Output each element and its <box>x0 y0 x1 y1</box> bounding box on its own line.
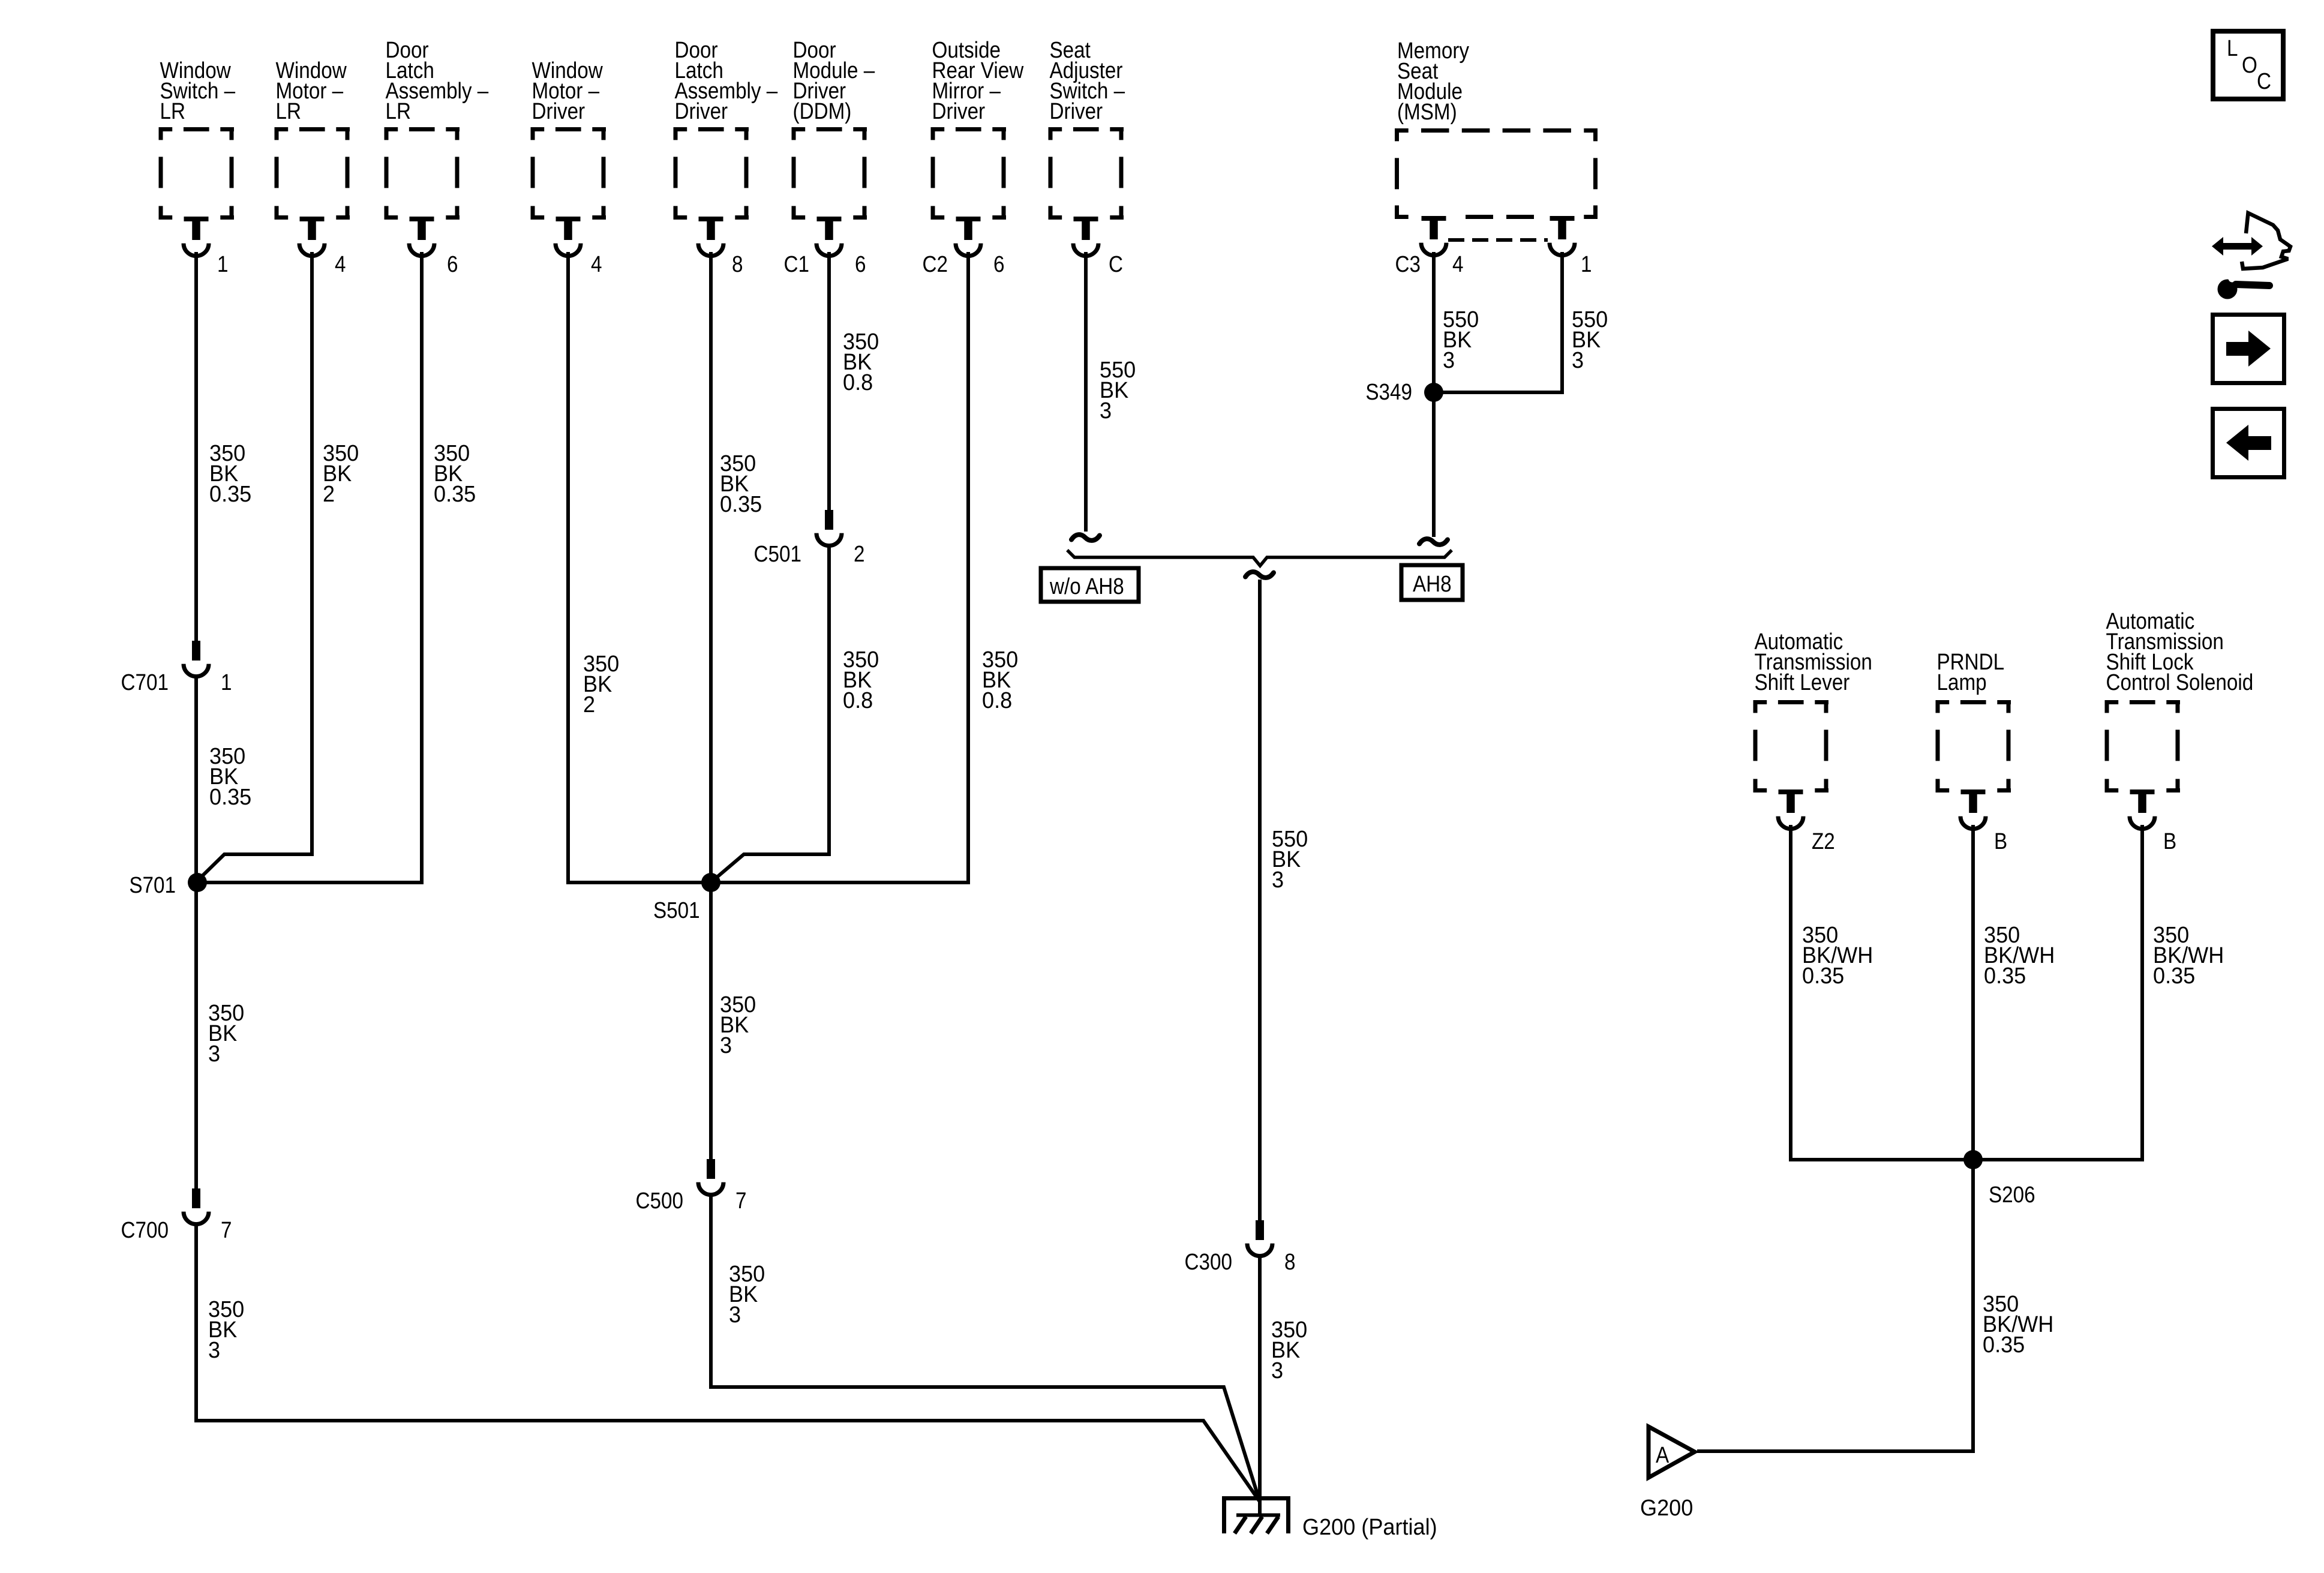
pin 4 connector of Window Motor - LR <box>299 217 325 256</box>
body-repair icon (double arrow, panel outline, wrench) <box>2212 213 2290 299</box>
junction label S501 <box>653 897 700 923</box>
component Door Module - Driver (DDM) label <box>793 37 875 124</box>
pin 8 connector of Door Latch Assembly - Driver <box>698 217 723 256</box>
C700 pin number 7 <box>221 1217 232 1243</box>
pin 6 connector of Door Module - Driver (DDM) <box>816 217 842 256</box>
component Automatic Transmission Shift Lever label <box>1755 629 1872 695</box>
dashed link between MSM pins 4 and 1 <box>1448 238 1548 242</box>
wire: C500 down, right, diagonal to G200 <box>711 1194 1260 1502</box>
off-page connector label G200 <box>1640 1494 1693 1520</box>
svg-text:G200 (Partial): G200 (Partial) <box>1302 1514 1437 1539</box>
svg-text:Shift Lever: Shift Lever <box>1755 670 1850 695</box>
wire: Window Motor LR pin 4 down, jog left into S701 <box>197 252 312 881</box>
component Automatic Transmission Shift Lever dashed box <box>1753 700 1829 792</box>
pin number 1 <box>217 251 228 277</box>
wire: Door Module Driver pin 6 down to C501 <box>827 252 831 510</box>
pin number 4 <box>335 251 346 277</box>
svg-text:Driver: Driver <box>675 98 728 124</box>
svg-text:Control Solenoid: Control Solenoid <box>2106 670 2254 695</box>
wire label 350 BK 0.35 (Door Latch LR) <box>434 440 476 506</box>
pin B connector of PRNDL Lamp <box>1960 789 1986 829</box>
svg-text:0.35: 0.35 <box>209 784 251 809</box>
C701 pin number 1 <box>221 670 232 695</box>
pin number 6 <box>855 251 866 277</box>
svg-text:6: 6 <box>993 251 1004 277</box>
wire: C700 down, right along bottom, diagonal to G200 <box>196 1223 1260 1502</box>
wire: S501 down to C500 <box>709 882 713 1159</box>
svg-text:A: A <box>1656 1442 1669 1468</box>
svg-text:7: 7 <box>735 1188 746 1214</box>
wire: Window Motor Driver pin 4 down to S501 <box>568 252 711 882</box>
svg-text:C: C <box>1109 251 1123 277</box>
component Memory Seat Module (MSM) dashed box <box>1395 128 1598 219</box>
wire label 350 BK 3 (below C700) <box>208 1296 244 1362</box>
wire label 350 BK 3 (below C300) <box>1271 1316 1307 1383</box>
svg-text:Driver: Driver <box>932 98 986 124</box>
wire: merged ground wire down to C300 <box>1258 580 1262 1220</box>
svg-text:Driver: Driver <box>532 98 585 124</box>
connector C700 <box>184 1188 209 1224</box>
connector C701 <box>184 641 209 677</box>
svg-text:C2: C2 <box>923 251 948 277</box>
wire label 350 BK 2 (Window Motor Driver) <box>583 650 619 717</box>
component Window Switch - LR label <box>160 58 236 124</box>
svg-text:6: 6 <box>855 251 866 277</box>
svg-text:C500: C500 <box>636 1188 683 1214</box>
option label box AH8 <box>1401 565 1463 600</box>
splice junction S501 <box>701 873 720 892</box>
junction label S701 <box>129 872 176 898</box>
pin letter Z2 <box>1812 828 1835 854</box>
svg-text:S206: S206 <box>1989 1182 2035 1208</box>
wire: C501 down, jog left into S501 <box>712 545 829 881</box>
svg-text:3: 3 <box>208 1040 220 1066</box>
svg-text:Z2: Z2 <box>1812 828 1835 854</box>
pin number 4 <box>591 251 602 277</box>
svg-text:3: 3 <box>1271 1357 1283 1383</box>
svg-text:2: 2 <box>583 691 595 717</box>
pin C connector of Seat Adjuster Switch - Driver <box>1073 217 1098 256</box>
connector label C501 <box>754 541 801 567</box>
pin number 6 <box>447 251 458 277</box>
svg-text:1: 1 <box>221 670 232 695</box>
pin 1 connector of Window Switch - LR <box>184 217 209 256</box>
wire: Door Latch Assembly LR pin 6 down to S701 <box>197 252 422 882</box>
wire label 350 BK/WH 0.35 (shift lever) <box>1802 921 1873 988</box>
component PRNDL Lamp label <box>1937 649 2005 695</box>
pin Z2 connector of Automatic Transmission Shift Lever <box>1778 789 1803 829</box>
svg-text:4: 4 <box>1452 251 1463 277</box>
svg-text:8: 8 <box>1284 1249 1295 1275</box>
svg-text:2: 2 <box>854 541 864 567</box>
ground label G200 (Partial) <box>1302 1514 1437 1539</box>
wire label 350 BK 0.35 (above C701) <box>209 440 251 506</box>
splice junction S701 <box>188 873 207 892</box>
wire label 350 BK/WH 0.35 (PRNDL) <box>1984 921 2055 988</box>
component Window Motor - Driver label <box>532 58 603 124</box>
connector name C3 <box>1395 251 1421 277</box>
wire: S206 down and left to off-page connector A <box>1697 1160 1973 1451</box>
wire: C701 down to S701 <box>194 676 198 882</box>
splice junction S206 <box>1963 1150 1983 1169</box>
svg-text:0.35: 0.35 <box>434 481 476 506</box>
pin letter B <box>1994 828 2007 854</box>
connector label C500 <box>636 1188 683 1214</box>
svg-text:0.35: 0.35 <box>720 491 762 517</box>
pin letter B <box>2163 828 2176 854</box>
svg-text:0.8: 0.8 <box>843 687 873 713</box>
svg-text:S501: S501 <box>653 897 700 923</box>
junction label S349 <box>1365 379 1412 405</box>
wire label 550 BK 3 (MSM pin 4) <box>1443 306 1479 373</box>
svg-text:B: B <box>2163 828 2176 854</box>
svg-text:Driver: Driver <box>1050 98 1103 124</box>
connector C500 <box>698 1159 723 1195</box>
component Seat Adjuster Switch - Driver label <box>1050 37 1125 124</box>
pin number C <box>1109 251 1123 277</box>
component PRNDL Lamp dashed box <box>1936 700 2011 792</box>
component Door Module - Driver (DDM) dashed box <box>792 127 867 220</box>
connector C300 <box>1247 1220 1272 1256</box>
connector label C700 <box>121 1217 169 1243</box>
wire: Shift Lock Solenoid pin B down to S206 <box>1973 825 2142 1160</box>
wire label 350 BK 3 (below S501) <box>720 991 756 1058</box>
svg-text:C700: C700 <box>121 1217 169 1243</box>
svg-text:O: O <box>2242 52 2257 78</box>
wire label 350 BK 3 (below S701) <box>208 999 244 1066</box>
component Automatic Transmission Shift Lock Control Solenoid dashed box <box>2105 700 2181 792</box>
component Window Switch - LR dashed box <box>159 127 235 220</box>
component Door Latch Assembly - Driver dashed box <box>674 127 749 220</box>
svg-text:L: L <box>2227 35 2238 61</box>
connector label C701 <box>121 670 169 695</box>
svg-text:7: 7 <box>221 1217 232 1243</box>
svg-text:w/o AH8: w/o AH8 <box>1049 574 1124 599</box>
component Door Latch Assembly - LR label <box>386 37 489 124</box>
svg-text:8: 8 <box>732 251 743 277</box>
svg-text:0.35: 0.35 <box>1984 962 2026 988</box>
svg-text:3: 3 <box>1100 397 1112 423</box>
pin 6 connector of Outside Rear View Mirror - Driver <box>956 217 981 256</box>
svg-text:1: 1 <box>1581 251 1592 277</box>
wire: S701 down to C700 <box>194 882 198 1188</box>
svg-text:G200: G200 <box>1640 1494 1693 1520</box>
wire label 550 BK 3 (merged wire) <box>1272 825 1308 892</box>
component Window Motor - Driver dashed box <box>531 127 606 220</box>
component Door Latch Assembly - LR dashed box <box>385 127 460 220</box>
C300 pin number 8 <box>1284 1249 1295 1275</box>
svg-text:AH8: AH8 <box>1413 571 1452 597</box>
svg-text:LR: LR <box>386 98 411 124</box>
connector name C1 (DDM) <box>784 251 809 277</box>
component Outside Rear View Mirror - Driver dashed box <box>931 127 1007 220</box>
svg-text:4: 4 <box>591 251 602 277</box>
svg-text:6: 6 <box>447 251 458 277</box>
svg-text:C300: C300 <box>1185 1249 1232 1275</box>
svg-text:(MSM): (MSM) <box>1397 99 1457 125</box>
MSM pin 4 connector <box>1421 216 1446 256</box>
pin number 6 <box>993 251 1004 277</box>
svg-text:(DDM): (DDM) <box>793 98 852 124</box>
svg-text:0.35: 0.35 <box>2153 962 2195 988</box>
component Memory Seat Module (MSM) label <box>1397 38 1469 125</box>
wire label 350 BK 3 (below C500) <box>729 1260 765 1327</box>
connector label C300 <box>1185 1249 1232 1275</box>
wire: Shift Lever pin Z2 down to S206 <box>1791 825 1973 1160</box>
component Outside Rear View Mirror - Driver label <box>932 37 1024 124</box>
svg-text:1: 1 <box>217 251 228 277</box>
wire label 350 BK/WH 0.35 (to G200) <box>1983 1290 2053 1357</box>
wire label 550 BK 3 (MSM pin 1) <box>1572 306 1608 373</box>
pin B connector of Automatic Transmission Shift Lock Control Solenoid <box>2130 789 2155 829</box>
wire label 350 BK 0.35 (Door Latch Driver) <box>720 450 762 517</box>
component Automatic Transmission Shift Lock Control Solenoid label <box>2106 608 2254 695</box>
svg-text:3: 3 <box>720 1032 732 1058</box>
wire: Seat Adjuster Switch pin C down to option brace <box>1084 252 1088 532</box>
C500 pin number 7 <box>735 1188 746 1214</box>
forward arrow legend box <box>2213 315 2284 383</box>
pin 4 connector of Window Motor - Driver <box>556 217 581 256</box>
svg-text:3: 3 <box>1572 347 1584 373</box>
C501 pin number 2 <box>854 541 864 567</box>
MSM pin number 4 <box>1452 251 1463 277</box>
option break squiggle (AH8 wire end) <box>1419 539 1448 545</box>
svg-text:C501: C501 <box>754 541 801 567</box>
svg-text:3: 3 <box>729 1301 741 1327</box>
wire: Outside Rear View Mirror pin 6 down to S501 <box>711 252 968 882</box>
option merge brace (w/o AH8 vs AH8) <box>1067 550 1452 566</box>
option break squiggle (w/o AH8 wire end) <box>1071 535 1100 541</box>
svg-text:0.8: 0.8 <box>843 369 873 395</box>
connector name C2 (mirror) <box>923 251 948 277</box>
svg-text:0.35: 0.35 <box>1802 962 1844 988</box>
off-page connector triangle A <box>1649 1427 1695 1478</box>
wire label 350 BK 2 (Window Motor LR) <box>323 440 359 506</box>
svg-text:3: 3 <box>1443 347 1455 373</box>
wire label 350 BK 0.8 (DDM upper) <box>843 328 879 395</box>
wire label 350 BK 0.8 (DDM lower) <box>843 646 879 713</box>
svg-text:2: 2 <box>323 481 335 506</box>
junction label S206 <box>1989 1182 2035 1208</box>
svg-text:LR: LR <box>160 98 185 124</box>
option break squiggle (merged wire top) <box>1245 572 1274 578</box>
svg-text:4: 4 <box>335 251 346 277</box>
wire: PRNDL Lamp pin B down to S206 <box>1971 825 1975 1160</box>
component Window Motor - LR label <box>276 58 347 124</box>
svg-text:S701: S701 <box>129 872 176 898</box>
LOC legend box <box>2213 31 2283 99</box>
svg-text:S349: S349 <box>1365 379 1412 405</box>
connector C501 <box>816 510 842 546</box>
option label box w/o AH8 <box>1041 568 1139 602</box>
svg-text:LR: LR <box>276 98 301 124</box>
wire: MSM pin 4 down through S349 <box>1432 252 1436 537</box>
splice junction S349 <box>1424 383 1443 402</box>
svg-text:C701: C701 <box>121 670 169 695</box>
svg-text:C1: C1 <box>784 251 809 277</box>
svg-text:C3: C3 <box>1395 251 1421 277</box>
component Door Latch Assembly - Driver label <box>675 37 778 124</box>
wire label 350 BK 0.8 (mirror) <box>982 646 1018 713</box>
svg-text:0.35: 0.35 <box>1983 1331 2025 1357</box>
svg-text:3: 3 <box>1272 866 1284 892</box>
svg-text:B: B <box>1994 828 2007 854</box>
MSM pin 1 connector <box>1550 216 1575 256</box>
wire: Window Switch LR pin 1 down to C701 <box>194 252 198 641</box>
wire label 350 BK 0.35 (below C701) <box>209 743 251 809</box>
wire label 550 BK 3 (seat adjuster) <box>1100 356 1136 423</box>
pin 6 connector of Door Latch Assembly - LR <box>409 217 434 256</box>
svg-text:Lamp: Lamp <box>1937 670 1987 695</box>
svg-text:3: 3 <box>208 1337 220 1362</box>
backward arrow legend box <box>2213 409 2284 478</box>
wire: C300 down to ground G200 <box>1258 1255 1262 1515</box>
MSM pin number 1 <box>1581 251 1592 277</box>
wire: Door Latch Assembly Driver pin 8 down to S501 <box>709 252 713 882</box>
ground symbol G200 (Partial) <box>1224 1499 1289 1534</box>
pin number 8 <box>732 251 743 277</box>
svg-text:0.35: 0.35 <box>209 481 251 506</box>
component Seat Adjuster Switch - Driver dashed box <box>1049 127 1124 220</box>
wire label 350 BK/WH 0.35 (solenoid) <box>2153 921 2224 988</box>
svg-text:0.8: 0.8 <box>982 687 1012 713</box>
svg-text:C: C <box>2257 68 2271 94</box>
wire: MSM pin 1 down and left to S349 <box>1434 252 1562 392</box>
component Window Motor - LR dashed box <box>275 127 350 220</box>
